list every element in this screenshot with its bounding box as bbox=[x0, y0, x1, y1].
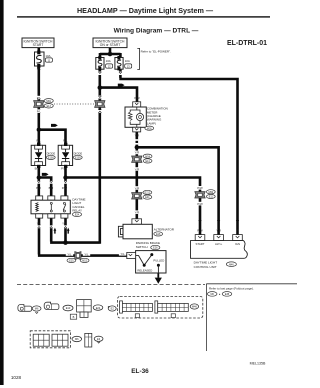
svg-text:E13: E13 bbox=[47, 105, 52, 108]
svg-text:P/W: P/W bbox=[197, 202, 203, 206]
svg-text:DIODE: DIODE bbox=[74, 151, 83, 155]
label P/L below C1 bbox=[35, 109, 42, 113]
wire J4 down through C2 to node J5 bbox=[66, 88, 100, 244]
wire J4 branch to combination meter bbox=[100, 88, 137, 103]
svg-text:1028: 1028 bbox=[11, 375, 22, 380]
svg-text:Y/L: Y/L bbox=[37, 222, 42, 226]
wire ignition ON-START to fuses F2 F3 bbox=[100, 48, 120, 59]
wire node J6 to alternator bbox=[136, 147, 139, 219]
svg-text:M46: M46 bbox=[192, 305, 198, 309]
svg-text:Y/R: Y/R bbox=[135, 186, 140, 190]
svg-text:RELAY: RELAY bbox=[72, 208, 82, 212]
arrow down on IGN wire bbox=[236, 217, 239, 224]
ignition switch START box bbox=[22, 38, 54, 48]
alternator G1 bbox=[118, 219, 174, 239]
label P/L above C1 bbox=[35, 96, 42, 100]
header rule bbox=[17, 16, 270, 17]
wire junction J1 branch to diode D2 bbox=[39, 130, 66, 144]
wire parking brake switch to ground bbox=[157, 273, 159, 278]
svg-text:13: 13 bbox=[127, 64, 130, 68]
label Y/L before parking brake pin bbox=[119, 252, 126, 256]
node J5 bbox=[63, 240, 68, 245]
wire J1 to diode D1 bbox=[37, 130, 40, 144]
svg-text:M15: M15 bbox=[82, 260, 87, 263]
wire diode D2 out to relay pin 3 bbox=[64, 167, 67, 197]
label Y/R above connector C3 bbox=[133, 151, 141, 155]
wire bus P/W from node J3 to control unit START bbox=[66, 178, 201, 236]
connector c grid bbox=[70, 300, 91, 320]
wire fuse F3 to control unit IGN bbox=[119, 69, 237, 235]
svg-text:MEL135B: MEL135B bbox=[250, 362, 266, 366]
connector row 1: connector b bbox=[44, 302, 59, 309]
svg-text:P/W: P/W bbox=[134, 96, 140, 100]
svg-text:E24: E24 bbox=[96, 306, 101, 310]
svg-text:P/L: P/L bbox=[37, 110, 42, 114]
combination meter M1 bbox=[125, 102, 146, 132]
svg-text:Wiring Diagram — DTRL —: Wiring Diagram — DTRL — bbox=[114, 28, 199, 35]
control unit label bbox=[194, 261, 237, 269]
svg-text:E2: E2 bbox=[111, 307, 115, 311]
svg-text:B: B bbox=[73, 315, 75, 319]
wire node J2 branch to relay pin 2 bbox=[39, 178, 51, 197]
svg-text:P/W: P/W bbox=[197, 186, 203, 190]
control unit connector grid 2 bbox=[155, 301, 188, 318]
svg-text:M6: M6 bbox=[75, 337, 79, 341]
node J2 bbox=[37, 175, 41, 179]
wire fuse F1 to connector C1 (P/L) bbox=[37, 66, 40, 102]
svg-text:Y/R: Y/R bbox=[135, 151, 140, 155]
control unit connector oval bbox=[190, 304, 198, 309]
svg-text:SWITCH: SWITCH bbox=[136, 245, 148, 249]
node J1 bbox=[37, 128, 41, 132]
svg-text:PULLED: PULLED bbox=[153, 259, 164, 263]
svg-text:B/R: B/R bbox=[49, 186, 54, 190]
svg-text:HEADLAMP — Daytime Light Syste: HEADLAMP — Daytime Light System — bbox=[77, 6, 214, 15]
svg-text:Y/R: Y/R bbox=[216, 228, 221, 232]
svg-text:E16: E16 bbox=[156, 233, 161, 236]
arrow down on START wire bbox=[198, 217, 201, 224]
node at ignition ON-START split bbox=[108, 52, 113, 57]
svg-text:B/R: B/R bbox=[36, 186, 41, 190]
wire node J6 branch to control unit ALT-L bbox=[137, 147, 219, 235]
row 2 oval g bbox=[72, 336, 82, 341]
svg-text:Y/B: Y/B bbox=[62, 222, 67, 226]
svg-text:Y/L: Y/L bbox=[84, 252, 89, 256]
svg-text:P/L: P/L bbox=[36, 139, 41, 143]
arrow up beside relay pin 5 wire bbox=[54, 228, 57, 234]
arrow up beside relay pin 6 wire bbox=[67, 228, 70, 234]
pin chevron below connector C2 bbox=[98, 110, 102, 113]
svg-text:E28: E28 bbox=[153, 247, 158, 250]
parking brake switch S1 bbox=[127, 251, 166, 273]
svg-text:P/L: P/L bbox=[37, 96, 42, 100]
bracket for EL-POWER note bbox=[137, 48, 139, 69]
svg-text:E109: E109 bbox=[75, 157, 81, 160]
wire fuse F2 to junction J4 bbox=[99, 69, 102, 88]
node J4 bbox=[98, 85, 103, 90]
pin gaps on meter output wire bbox=[135, 139, 138, 144]
dotted link between C1 and C2 bbox=[54, 103, 94, 105]
daytime light control unit U1 bbox=[191, 235, 248, 259]
svg-text:E38: E38 bbox=[225, 293, 230, 296]
svg-text:E24: E24 bbox=[75, 214, 80, 217]
connector C5 on alternator wire bbox=[132, 186, 152, 199]
connector C3 bbox=[132, 154, 152, 163]
node J3 bbox=[63, 175, 67, 179]
svg-text:LAMP): LAMP) bbox=[147, 121, 156, 125]
svg-text:E14: E14 bbox=[145, 160, 150, 163]
parking brake switch label bbox=[136, 241, 160, 250]
svg-text:E212: E212 bbox=[145, 192, 151, 195]
svg-text:M46: M46 bbox=[229, 263, 234, 266]
connector a oval bbox=[32, 306, 41, 314]
connector C4 on Y/L wire bbox=[66, 252, 90, 263]
dashed separator line bbox=[17, 284, 205, 286]
row 2 oval i bbox=[94, 336, 103, 343]
control unit connector grid 1 bbox=[120, 301, 153, 318]
pin chevrons below relay pins bbox=[38, 225, 41, 228]
svg-text:E13: E13 bbox=[66, 306, 71, 310]
svg-text:Y/L: Y/L bbox=[67, 252, 72, 256]
fuse F2 10A bbox=[96, 56, 113, 70]
svg-text:P: P bbox=[237, 228, 239, 232]
wire diode D1 out to relay pin 1 bbox=[37, 167, 40, 197]
arrow right on J4 branch bbox=[118, 84, 125, 87]
svg-text:Y/R: Y/R bbox=[135, 211, 140, 215]
svg-text:ON or START: ON or START bbox=[100, 43, 121, 47]
note box rules bbox=[206, 284, 297, 351]
wire relay pin 5 to node J5 bbox=[50, 218, 65, 243]
wire relay pin 6 to node J5 bbox=[64, 218, 67, 243]
relay K1 label bbox=[72, 198, 85, 217]
ground symbol bbox=[155, 278, 162, 284]
row 2 grid connector f bbox=[52, 334, 68, 346]
svg-text:DIODE: DIODE bbox=[47, 151, 56, 155]
arrow down on ALT-L wire bbox=[217, 217, 220, 224]
svg-text:Y/R: Y/R bbox=[135, 167, 140, 171]
svg-text:M26: M26 bbox=[147, 127, 152, 130]
svg-text:M6: M6 bbox=[35, 307, 39, 311]
label P/W above connector C6 bbox=[196, 186, 204, 190]
wire relay pin 4 to parking brake switch (Y/L) bbox=[38, 218, 128, 256]
connector C6 bbox=[195, 190, 215, 199]
fuse F1 10A bbox=[35, 50, 53, 67]
svg-text:10A: 10A bbox=[125, 59, 130, 63]
connector c oval bbox=[93, 305, 103, 310]
svg-text:P/W: P/W bbox=[62, 186, 68, 190]
svg-text:START: START bbox=[196, 242, 205, 246]
svg-text:Y/R: Y/R bbox=[135, 134, 140, 138]
connector C2 bbox=[95, 99, 105, 110]
svg-text:EL-DTRL-01: EL-DTRL-01 bbox=[227, 40, 267, 47]
row 2 grid connector e bbox=[33, 334, 49, 346]
row 2 dashed box bbox=[30, 331, 70, 348]
svg-text:P/W: P/W bbox=[61, 167, 67, 171]
connector C1 bbox=[34, 99, 44, 110]
svg-text:IGN: IGN bbox=[235, 242, 240, 246]
connector row 1: connector a bbox=[18, 304, 32, 311]
arrow right on J1 branch bbox=[51, 124, 58, 127]
svg-text:M52: M52 bbox=[208, 191, 213, 194]
arrow right on J2 branch bbox=[42, 173, 49, 176]
svg-text:Refer to last page (Foldout pa: Refer to last page (Foldout page). bbox=[209, 286, 254, 290]
diode D2 bbox=[58, 143, 82, 168]
svg-text:E25: E25 bbox=[69, 260, 74, 263]
connector d oval with tab bbox=[108, 306, 116, 311]
wire ignition START to fuse F1 bbox=[37, 48, 40, 53]
dashed group box for control unit connectors bbox=[118, 296, 203, 318]
pin chevron below fuse F3 bbox=[119, 72, 123, 75]
svg-text:START: START bbox=[33, 43, 44, 47]
svg-text:E41: E41 bbox=[145, 196, 150, 199]
svg-text:Refer to “EL-POWER”.: Refer to “EL-POWER”. bbox=[141, 50, 172, 54]
diode D1 bbox=[31, 143, 55, 168]
wire combination meter to node J6 bbox=[136, 132, 139, 148]
svg-text:12: 12 bbox=[108, 64, 111, 68]
svg-text:M54: M54 bbox=[145, 155, 150, 158]
fuse F3 10A bbox=[115, 56, 132, 70]
svg-text:P/W: P/W bbox=[197, 228, 203, 232]
wire C1 down to junction J1 bbox=[37, 108, 40, 131]
row 2 small box h bbox=[85, 333, 92, 347]
svg-text:P/L: P/L bbox=[63, 139, 68, 143]
svg-text:E3: E3 bbox=[97, 337, 101, 341]
svg-text:EL-36: EL-36 bbox=[131, 368, 149, 375]
ignition switch ON or START box bbox=[93, 38, 127, 48]
svg-text:ALTERNATOR: ALTERNATOR bbox=[154, 227, 175, 231]
svg-text:Y/L: Y/L bbox=[120, 252, 125, 256]
svg-text:RELEASED: RELEASED bbox=[137, 269, 152, 273]
connector C1 ref ovals bbox=[44, 99, 53, 108]
relay K1 daytime light cancel relay bbox=[31, 196, 70, 218]
svg-text:CONTROL UNIT: CONTROL UNIT bbox=[194, 265, 217, 269]
svg-text:E11: E11 bbox=[209, 196, 214, 199]
svg-text:M61: M61 bbox=[46, 100, 51, 103]
node J6 bbox=[135, 145, 139, 149]
label Y/R above alternator bbox=[133, 210, 141, 214]
svg-text:B/R: B/R bbox=[35, 167, 40, 171]
svg-text:P/L: P/L bbox=[37, 67, 42, 71]
pin chevrons above relay pins bbox=[37, 181, 40, 184]
svg-text:ALT-L: ALT-L bbox=[215, 242, 223, 246]
binder edge bar bbox=[0, 0, 4, 385]
pin chevron above connector C2 bbox=[98, 96, 102, 99]
svg-text:E108: E108 bbox=[48, 157, 54, 160]
note ref ovals bbox=[207, 292, 231, 297]
connector b oval bbox=[63, 305, 73, 311]
svg-text:10A: 10A bbox=[106, 59, 111, 63]
combination meter label bbox=[145, 107, 168, 131]
label Y/R below connector C3 bbox=[133, 167, 141, 171]
pin chevron below fuse F2 bbox=[98, 72, 102, 75]
svg-text:11: 11 bbox=[48, 58, 51, 62]
label P/W below connector C6 bbox=[196, 202, 204, 206]
svg-text:Y: Y bbox=[50, 222, 52, 226]
